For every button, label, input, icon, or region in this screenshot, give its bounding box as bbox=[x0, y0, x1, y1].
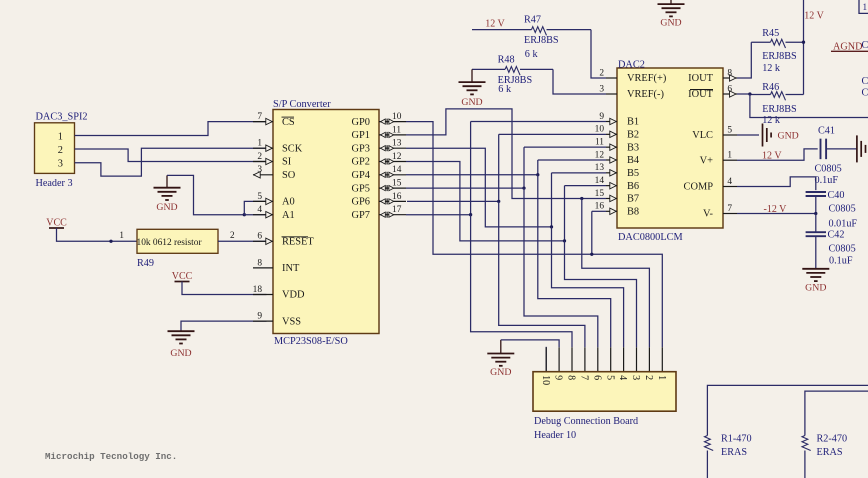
svg-text:INT: INT bbox=[282, 263, 300, 274]
wire net SPI_SCK from header pin3 to SCK bbox=[75, 148, 267, 176]
svg-text:B2: B2 bbox=[627, 130, 639, 141]
svg-text:R2-470: R2-470 bbox=[817, 434, 848, 445]
svg-text:3: 3 bbox=[58, 159, 63, 170]
resistor R46 ERJ8BS 12k bbox=[750, 94, 771, 96]
pins B1-B8 on DAC left side bbox=[606, 121, 617, 123]
svg-text:12 V: 12 V bbox=[804, 11, 824, 22]
resistor R2-470 ERAS bbox=[805, 391, 868, 435]
wire branch B2 bbox=[498, 134, 500, 201]
wire VCC to R49 pin1 bbox=[57, 228, 138, 241]
svg-text:17: 17 bbox=[392, 205, 402, 215]
junction net D4 bbox=[536, 173, 539, 176]
svg-text:GP7: GP7 bbox=[352, 210, 370, 221]
svg-text:R48: R48 bbox=[498, 55, 515, 66]
wire VSS pin9 to ground bbox=[181, 321, 267, 331]
svg-text:VREF(-): VREF(-) bbox=[627, 89, 664, 100]
svg-text:GND: GND bbox=[156, 202, 177, 213]
wire net SPI_SI from header pin2 to SI bbox=[75, 149, 267, 162]
wire R47 to VREF(+) pin2 bbox=[591, 30, 606, 78]
svg-text:C42: C42 bbox=[828, 230, 845, 241]
svg-text:C: C bbox=[862, 88, 868, 99]
svg-text:0.1uF: 0.1uF bbox=[815, 175, 839, 186]
wire C42 to ground bbox=[815, 236, 817, 269]
svg-text:18: 18 bbox=[253, 285, 263, 295]
svg-text:10k 0612 resistor: 10k 0612 resistor bbox=[137, 238, 203, 248]
svg-text:ERJ8BS: ERJ8BS bbox=[762, 51, 797, 62]
wire C41 to right edge ground bbox=[826, 148, 857, 150]
svg-text:IOUT: IOUT bbox=[688, 73, 713, 84]
svg-text:C0805: C0805 bbox=[829, 204, 856, 215]
svg-text:14: 14 bbox=[392, 165, 402, 175]
svg-text:R45: R45 bbox=[762, 28, 779, 39]
svg-text:14: 14 bbox=[595, 176, 605, 186]
wire net D5 GP5-B3-hdr6 bbox=[406, 187, 524, 189]
wire header pin10 stub bbox=[545, 347, 547, 372]
svg-text:B1: B1 bbox=[627, 117, 639, 128]
svg-text:11: 11 bbox=[392, 125, 401, 135]
junction IOUT- node bbox=[748, 92, 751, 95]
wire net D3 to header pin4 bbox=[552, 227, 624, 347]
svg-text:6: 6 bbox=[727, 84, 732, 94]
wire V+ pin1 to C41 bbox=[737, 149, 818, 160]
svg-text:ERJ8BS: ERJ8BS bbox=[762, 104, 797, 115]
wire branch B7 bbox=[582, 197, 606, 199]
svg-text:VCC: VCC bbox=[172, 271, 193, 282]
svg-text:12: 12 bbox=[595, 150, 605, 160]
ground GND symbol below VSS bbox=[168, 330, 195, 332]
svg-text:SCK: SCK bbox=[282, 143, 303, 154]
svg-text:Microchip Tecnology Inc.: Microchip Tecnology Inc. bbox=[45, 451, 177, 462]
capacitor C40 C0805 0.01uF bbox=[806, 191, 826, 193]
svg-text:VREF(+): VREF(+) bbox=[627, 73, 666, 84]
svg-text:12 k: 12 k bbox=[762, 115, 781, 126]
wire R49 pin2 to RESET pin6 bbox=[218, 240, 267, 242]
junction net D1 bbox=[580, 197, 583, 200]
svg-text:1: 1 bbox=[58, 131, 63, 142]
svg-text:VCC: VCC bbox=[46, 218, 67, 229]
wire VCC to VDD pin18 bbox=[182, 282, 267, 295]
ground GND symbol top centre bbox=[670, 0, 672, 4]
junction A0/A1 node bbox=[243, 213, 246, 216]
svg-text:13: 13 bbox=[392, 139, 402, 149]
header pin stubs bbox=[661, 347, 663, 371]
svg-text:ERAS: ERAS bbox=[721, 447, 747, 458]
wire net D5 to header pin6 bbox=[524, 188, 598, 347]
svg-text:7: 7 bbox=[727, 204, 732, 214]
svg-text:MCP23S08-E/SO: MCP23S08-E/SO bbox=[274, 336, 348, 347]
wire 12V rail vertical bbox=[803, 0, 805, 95]
svg-text:3: 3 bbox=[599, 84, 604, 94]
svg-text:5: 5 bbox=[604, 375, 615, 380]
wire node to C42 bbox=[815, 214, 817, 233]
svg-text:C: C bbox=[862, 40, 868, 51]
svg-text:9: 9 bbox=[599, 112, 604, 122]
svg-text:16: 16 bbox=[392, 192, 402, 202]
svg-text:VLC: VLC bbox=[692, 130, 713, 141]
svg-text:Header 3: Header 3 bbox=[36, 178, 73, 189]
wire net D7 to header pin8 bbox=[471, 215, 572, 348]
wire net D6 GP6-B2-hdr7 bbox=[407, 200, 499, 202]
svg-text:GND: GND bbox=[490, 367, 511, 378]
pins VREF on DAC left side bbox=[606, 77, 617, 79]
wire net SPI_CS from header pin1 to CS bbox=[75, 122, 267, 136]
svg-text:C40: C40 bbox=[828, 190, 845, 201]
svg-text:GP3: GP3 bbox=[352, 143, 370, 154]
wire COMP pin4 to C40 bbox=[737, 177, 816, 190]
wire branch B4 bbox=[537, 160, 539, 175]
svg-text:CS: CS bbox=[282, 117, 295, 128]
svg-text:IOUT: IOUT bbox=[688, 89, 713, 100]
svg-text:VDD: VDD bbox=[282, 290, 305, 301]
wire net D6 to header pin7 bbox=[499, 201, 585, 347]
wire net D7 GP7-B1-hdr8 bbox=[406, 214, 471, 216]
wire IOUT- to right edge bbox=[750, 94, 868, 118]
svg-text:B3: B3 bbox=[627, 142, 639, 153]
ground sideways symbol right edge bbox=[856, 135, 858, 162]
svg-text:9: 9 bbox=[257, 312, 262, 322]
svg-text:GP1: GP1 bbox=[352, 130, 370, 141]
svg-text:1: 1 bbox=[727, 151, 732, 161]
svg-text:GP0: GP0 bbox=[352, 117, 370, 128]
svg-text:15: 15 bbox=[392, 179, 402, 189]
svg-text:6 k: 6 k bbox=[498, 84, 512, 95]
wire C40 to -12V node bbox=[815, 196, 817, 214]
svg-text:10: 10 bbox=[540, 375, 551, 385]
svg-text:Header 10: Header 10 bbox=[534, 430, 576, 441]
wire branch B8 bbox=[591, 211, 593, 254]
svg-text:ERAS: ERAS bbox=[817, 447, 843, 458]
svg-text:VSS: VSS bbox=[282, 316, 301, 327]
svg-text:2: 2 bbox=[230, 230, 235, 240]
svg-text:15: 15 bbox=[595, 189, 605, 199]
ground sideways symbol at VLC bbox=[762, 124, 764, 147]
svg-text:11: 11 bbox=[595, 138, 604, 148]
svg-text:6: 6 bbox=[257, 232, 262, 242]
junction 12V/R45 bbox=[802, 41, 805, 44]
power VCC symbol 1 bbox=[49, 227, 64, 229]
svg-text:GP5: GP5 bbox=[352, 183, 370, 194]
svg-text:C41: C41 bbox=[818, 126, 835, 137]
wire V- pin7 to node bbox=[737, 213, 816, 215]
svg-text:DAC0800LCM: DAC0800LCM bbox=[618, 232, 683, 243]
capacitor C42 C0805 0.1uF bbox=[806, 231, 826, 233]
wire net D1 to header pin2 bbox=[582, 198, 650, 347]
svg-text:2: 2 bbox=[58, 145, 63, 156]
junction net D7 bbox=[469, 213, 472, 216]
svg-text:12: 12 bbox=[392, 152, 402, 162]
svg-text:3: 3 bbox=[257, 165, 262, 175]
svg-text:12 k: 12 k bbox=[762, 63, 781, 74]
svg-text:GP4: GP4 bbox=[352, 170, 371, 181]
svg-text:9: 9 bbox=[553, 375, 564, 380]
svg-text:16: 16 bbox=[595, 202, 605, 212]
junction net D3 bbox=[550, 225, 553, 228]
svg-text:4: 4 bbox=[617, 375, 628, 380]
junction on VCC/R49 wire bbox=[109, 240, 112, 243]
wire IOUT pin8 to R45 bbox=[737, 42, 751, 78]
component box fragment top right corner bbox=[859, 0, 868, 13]
svg-text:B8: B8 bbox=[627, 207, 639, 218]
svg-text:1: 1 bbox=[257, 139, 262, 149]
svg-text:8: 8 bbox=[257, 258, 262, 268]
svg-text:GND: GND bbox=[805, 282, 826, 293]
svg-text:GND: GND bbox=[170, 348, 191, 359]
svg-text:DAC2: DAC2 bbox=[618, 60, 645, 71]
ground GND symbol near header bbox=[166, 175, 168, 187]
svg-text:10: 10 bbox=[392, 112, 402, 122]
svg-text:R49: R49 bbox=[137, 258, 154, 269]
svg-text:GND: GND bbox=[461, 97, 482, 108]
svg-text:V+: V+ bbox=[700, 155, 714, 166]
svg-text:B7: B7 bbox=[627, 194, 639, 205]
svg-text:4: 4 bbox=[727, 177, 732, 187]
svg-text:12 V: 12 V bbox=[485, 19, 505, 30]
svg-text:GP6: GP6 bbox=[352, 197, 370, 208]
svg-text:A0: A0 bbox=[282, 197, 295, 208]
connector J DAC3_SPI2 Header 3 bbox=[35, 123, 75, 174]
svg-text:13: 13 bbox=[595, 163, 605, 173]
wire VLC pin5 to ground bbox=[737, 134, 759, 136]
wire ground to header pin9 bbox=[501, 340, 559, 347]
power VCC symbol 2 bbox=[175, 281, 190, 283]
svg-text:DAC3_SPI2: DAC3_SPI2 bbox=[36, 112, 88, 123]
svg-text:S/P Converter: S/P Converter bbox=[273, 99, 331, 110]
wire net D0 GP0-B8-hdr1 bbox=[406, 122, 662, 348]
connector Debug Connection Board Header 10 bbox=[533, 372, 676, 412]
svg-text:C0805: C0805 bbox=[815, 164, 842, 175]
junction -12V node bbox=[814, 212, 817, 215]
wire net D4 GP4-B4-hdr5 bbox=[406, 174, 538, 176]
svg-text:8: 8 bbox=[727, 68, 732, 78]
svg-text:5: 5 bbox=[727, 125, 732, 135]
svg-text:R46: R46 bbox=[762, 82, 779, 93]
svg-text:GP2: GP2 bbox=[352, 157, 370, 168]
svg-text:6 k: 6 k bbox=[525, 49, 539, 60]
resistor R49 10k 0612 bbox=[137, 229, 218, 253]
svg-text:8: 8 bbox=[566, 375, 577, 380]
wire branch B1 bbox=[470, 122, 472, 215]
wire branch B5 bbox=[551, 173, 553, 227]
wire branch B6 bbox=[564, 186, 566, 241]
svg-text:2: 2 bbox=[599, 68, 604, 78]
capacitor C41 C0805 0.1uF bbox=[820, 139, 822, 160]
wire net D2 GP2-B6-hdr3 bbox=[406, 162, 565, 241]
wire net D1 GP1-B7-hdr1 bbox=[406, 109, 582, 199]
svg-text:V-: V- bbox=[703, 209, 714, 220]
svg-text:R1-470: R1-470 bbox=[721, 434, 752, 445]
svg-text:ERJ8BS: ERJ8BS bbox=[524, 35, 559, 46]
wire branch B3 bbox=[523, 147, 525, 188]
wire branch to A1 bbox=[244, 214, 266, 216]
svg-text:GND: GND bbox=[778, 130, 799, 141]
svg-text:B5: B5 bbox=[627, 168, 639, 179]
svg-text:R47: R47 bbox=[524, 15, 541, 26]
svg-text:1: 1 bbox=[863, 2, 868, 12]
svg-text:RESET: RESET bbox=[282, 237, 314, 248]
wire net D3 GP3-B5-hdr4 bbox=[406, 148, 552, 227]
svg-text:7: 7 bbox=[579, 375, 590, 380]
pins on S/P converter left side bbox=[253, 121, 273, 123]
svg-text:A1: A1 bbox=[282, 210, 295, 221]
svg-text:6: 6 bbox=[591, 375, 602, 380]
svg-text:C: C bbox=[862, 76, 868, 87]
svg-text:3: 3 bbox=[630, 375, 641, 380]
svg-text:B6: B6 bbox=[627, 181, 639, 192]
svg-text:SI: SI bbox=[282, 157, 292, 168]
svg-text:GND: GND bbox=[660, 18, 681, 29]
svg-text:0.01uF: 0.01uF bbox=[829, 219, 858, 230]
wire branch to A0 bbox=[244, 201, 266, 214]
op-amp expander U S/P Converter MCP23S08-E/SO bbox=[273, 110, 379, 334]
svg-text:C0805: C0805 bbox=[829, 244, 856, 255]
resistor R47 ERJ8BS 6k bbox=[472, 29, 532, 31]
svg-text:SO: SO bbox=[282, 170, 296, 181]
svg-text:10: 10 bbox=[595, 125, 605, 135]
junction net D6 bbox=[497, 200, 500, 203]
svg-text:0.1uF: 0.1uF bbox=[829, 256, 853, 267]
svg-text:B4: B4 bbox=[627, 155, 640, 166]
wire net D4 to header pin5 bbox=[538, 175, 611, 347]
resistor R48 ERJ8BS 6k bbox=[472, 68, 505, 70]
wire R48 to VREF(-) pin3 bbox=[553, 69, 606, 94]
svg-text:COMP: COMP bbox=[684, 182, 714, 193]
wire GND to A0/A1 bbox=[167, 175, 244, 214]
junction net D5 bbox=[522, 186, 525, 189]
svg-text:1: 1 bbox=[119, 230, 124, 240]
resistor R1-470 ERAS bbox=[707, 385, 868, 435]
svg-text:7: 7 bbox=[257, 112, 262, 122]
svg-text:4: 4 bbox=[257, 205, 262, 215]
svg-text:5: 5 bbox=[257, 192, 262, 202]
pins GP0-GP7 on S/P converter right side bbox=[379, 121, 406, 123]
pins on DAC right side bbox=[723, 77, 737, 79]
DAC U DAC2 DAC0800LCM bbox=[617, 68, 723, 228]
junction net D2 bbox=[563, 239, 566, 242]
ground GND symbol near header10 bbox=[500, 340, 502, 354]
ground GND symbol below R48 bbox=[471, 69, 473, 82]
resistor R45 ERJ8BS 12k bbox=[751, 41, 770, 43]
wire net D2 to header pin3 bbox=[565, 241, 637, 347]
wire IOUT- pin6 stub bbox=[737, 93, 750, 95]
junction net D0 bbox=[590, 253, 593, 256]
svg-text:Debug Connection Board: Debug Connection Board bbox=[534, 416, 638, 427]
svg-text:1: 1 bbox=[656, 375, 667, 380]
ground GND symbol below C42 bbox=[802, 268, 829, 270]
svg-text:2: 2 bbox=[257, 152, 262, 162]
svg-text:2: 2 bbox=[643, 375, 654, 380]
